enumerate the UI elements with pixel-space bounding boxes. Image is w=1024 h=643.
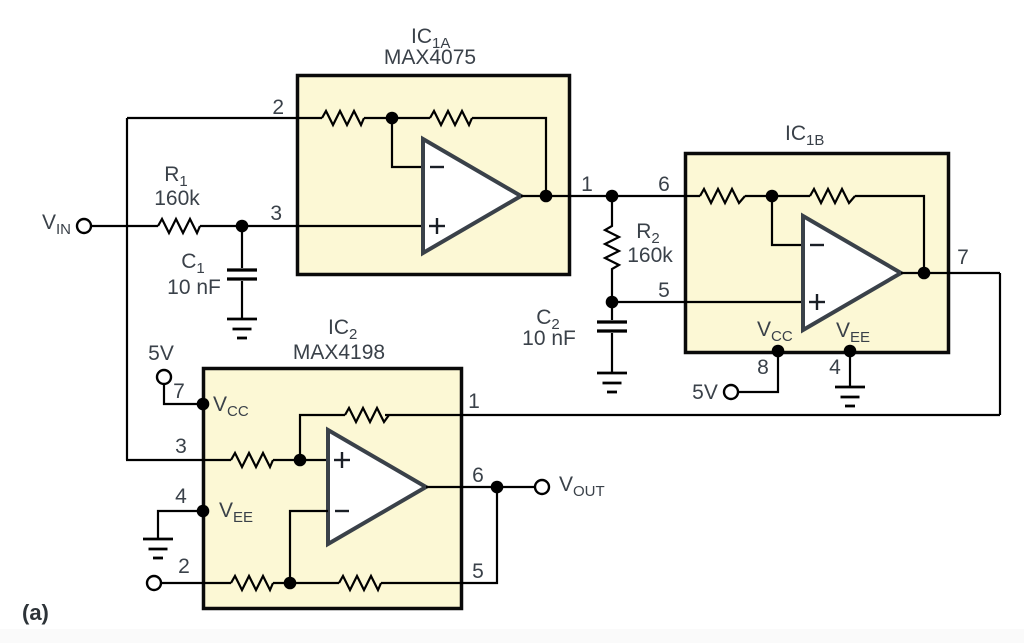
ground C1 [227, 319, 257, 338]
svg-text:10 nF: 10 nF [167, 276, 221, 299]
minus sign U1B [810, 244, 824, 246]
5V terminal IC1B [724, 385, 738, 399]
wire R1 to op-amp + input [200, 225, 423, 227]
capacitor C1 [241, 226, 243, 268]
svg-text:10 nF: 10 nF [522, 327, 576, 350]
svg-text:4: 4 [829, 356, 841, 379]
svg-text:MAX4198: MAX4198 [293, 341, 385, 364]
svg-text:3: 3 [175, 435, 187, 458]
resistor IC2 bottom right [339, 576, 381, 590]
wire left vertical [126, 118, 128, 460]
svg-text:7: 7 [173, 380, 185, 403]
wire [364, 117, 430, 119]
svg-text:160k: 160k [627, 244, 673, 267]
wire pin2 horizontal [127, 117, 322, 119]
svg-text:3: 3 [270, 202, 282, 225]
wire IC2 output [426, 486, 535, 488]
bottom gray strip [0, 629, 1024, 643]
node IC2 plus [294, 454, 307, 467]
terminal VIN [77, 219, 91, 233]
terminal VOUT [535, 480, 549, 494]
wire [745, 195, 810, 197]
wire plus node up to feedback [300, 415, 345, 460]
wire right vertical [999, 273, 1001, 415]
svg-text:6: 6 [472, 464, 484, 487]
svg-text:5V: 5V [148, 342, 174, 365]
wire IC1B output [901, 272, 1000, 274]
node IC1A output [540, 190, 553, 203]
resistor IC1A feedback 2 [430, 111, 472, 125]
terminal pin2 IC2 [147, 576, 161, 590]
resistor IC1B feedback 2 [810, 189, 855, 203]
svg-text:8: 8 [757, 356, 769, 379]
5V terminal IC2 [157, 370, 171, 384]
node IC2 VEE [197, 505, 210, 518]
minus sign U1A [430, 166, 444, 168]
svg-text:(a): (a) [22, 600, 49, 625]
ground IC2 [143, 539, 173, 558]
node R2 bottom [606, 296, 619, 309]
ground IC1B [835, 387, 865, 406]
resistor IC1B feedback 1 [700, 189, 745, 203]
wire to IC2 pin3 [126, 459, 231, 461]
plus sign U2 [334, 459, 350, 461]
node VCC pin8 [772, 345, 785, 358]
node IC2 minus [284, 577, 297, 590]
resistor R1 [158, 219, 200, 233]
node VEE pin4 [844, 345, 857, 358]
resistor IC1A feedback 1 [322, 111, 364, 125]
svg-text:5: 5 [658, 279, 670, 302]
wire minus IC2 [290, 511, 328, 583]
capacitor C2 [611, 302, 613, 320]
plus sign U1B [809, 301, 825, 303]
node R1/C1 [236, 220, 249, 233]
op-amp U1B [803, 216, 901, 330]
wire minus input IC1B [772, 196, 803, 245]
svg-text:5: 5 [472, 560, 484, 583]
svg-text:160k: 160k [154, 187, 200, 210]
node IC1B feedback [766, 190, 779, 203]
plus sign U1A [429, 225, 445, 227]
op-amp U2 [328, 430, 426, 544]
wire pin5 out [381, 487, 497, 583]
svg-text:7: 7 [957, 246, 969, 269]
op-amp U1A [423, 139, 521, 253]
wire feedback to output IC1B [855, 196, 924, 273]
wire pin5 row [612, 301, 803, 303]
wire VEE to ground IC2 [158, 511, 203, 539]
node IC1B output [918, 267, 931, 280]
wire pin1 long row [385, 414, 1000, 416]
wire VEE to ground [849, 351, 851, 387]
node IC2 VCC [197, 398, 210, 411]
wire feedback to output [472, 118, 546, 196]
node VOUT [491, 481, 504, 494]
resistor IC2 input [231, 453, 273, 467]
svg-text:1: 1 [581, 173, 593, 196]
node IC1A feedback [386, 112, 399, 125]
wire IC1A output row [521, 195, 700, 197]
resistor R2 [605, 196, 619, 302]
ground C2 [597, 373, 627, 392]
node R2 top [606, 190, 619, 203]
IC1A box [298, 76, 570, 275]
minus sign U2 [335, 510, 349, 512]
svg-text:5V: 5V [692, 381, 718, 404]
svg-text:2: 2 [178, 555, 190, 578]
resistor IC2 feedback [345, 408, 389, 422]
wire pin2 row [161, 582, 231, 584]
IC2 box [204, 369, 462, 609]
wire [273, 582, 339, 584]
wire VIN row [92, 225, 158, 227]
svg-text:2: 2 [272, 96, 284, 119]
IC1B box [686, 154, 949, 353]
svg-text:1: 1 [468, 390, 480, 413]
svg-text:MAX4075: MAX4075 [384, 46, 476, 69]
wire to + input IC2 [273, 459, 328, 461]
svg-text:6: 6 [658, 173, 670, 196]
svg-text:4: 4 [175, 485, 187, 508]
resistor IC2 bottom left [231, 576, 273, 590]
wire minus input IC1A [392, 118, 423, 167]
